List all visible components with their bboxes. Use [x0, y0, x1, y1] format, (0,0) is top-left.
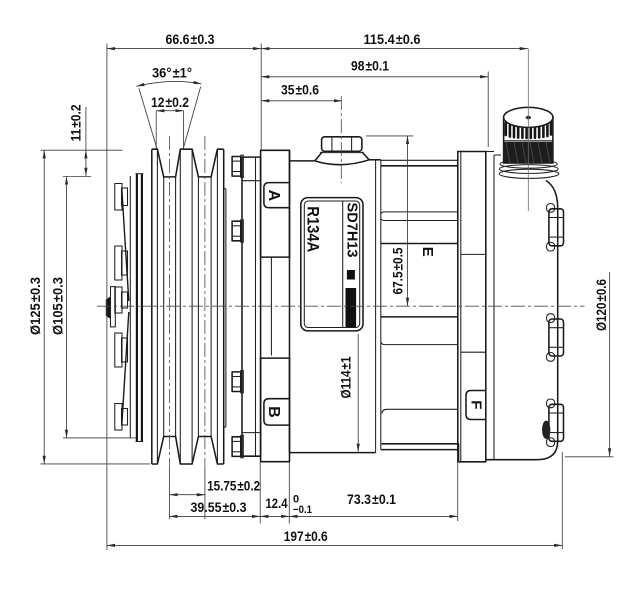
pulley flange outer lines [151, 149, 153, 464]
oil cap knurled dark band [503, 142, 554, 164]
oil filler boss [315, 152, 369, 161]
pulley top rim [152, 149, 224, 177]
svg-text:Ø120 ±0.6: Ø120 ±0.6 [594, 279, 609, 331]
bolt 1 [232, 155, 243, 177]
dimension Ø120±0.6 [609, 272, 611, 456]
clutch retainer center [115, 287, 122, 313]
svg-text:R134A: R134A [304, 206, 322, 252]
mounting lug bottom [542, 399, 564, 446]
groove centerline 1 [168, 136, 170, 468]
dimension 115.4±0.6 [261, 48, 528, 50]
bolt 3 [232, 371, 243, 393]
dimension Ø125±0.3 [43, 150, 45, 464]
rear banded cylinder section [381, 159, 458, 161]
clutch hub nut [106, 297, 111, 319]
svg-text:12.4: 12.4 [266, 496, 288, 511]
svg-text:Ø105 ±0.3: Ø105 ±0.3 [51, 277, 66, 335]
svg-text:A: A [265, 190, 282, 202]
dimension 15.75±0.2 [169, 494, 205, 496]
svg-text:66.6 ±0.3: 66.6 ±0.3 [166, 32, 215, 47]
dimension 39.55±0.3 [169, 515, 260, 517]
svg-text:Ø125 ±0.3: Ø125 ±0.3 [28, 277, 43, 335]
clutch retainer lower-mid [115, 333, 122, 367]
pulley bottom rim [152, 437, 224, 465]
B port block [261, 358, 290, 462]
cap centerline [527, 49, 529, 211]
dimension Ø114±1 [357, 334, 359, 452]
port B tab [264, 399, 290, 425]
dimension 66.6±0.3 [107, 48, 261, 50]
oil cap castellations [506, 123, 551, 138]
svg-text:98 ±0.1: 98 ±0.1 [351, 59, 389, 74]
clutch spider arms [122, 189, 129, 425]
mounting lug middle [547, 314, 564, 361]
port A tab [264, 183, 290, 208]
svg-text:Ø114 ±1: Ø114 ±1 [339, 356, 354, 398]
main axis centerline [97, 305, 585, 307]
cylinder head [458, 152, 486, 462]
svg-text:35 ±0.6: 35 ±0.6 [281, 83, 319, 98]
dimension 73.3±0.1 [289, 515, 457, 517]
mounting lug top [547, 204, 564, 251]
clutch retainer bottom [115, 404, 122, 431]
svg-text:−0.1: −0.1 [293, 504, 312, 516]
dimension 98±0.1 [261, 76, 488, 78]
svg-text:36° ±1°: 36° ±1° [152, 66, 192, 81]
A port block [261, 150, 290, 257]
dimension 36°±1° angular [136, 81, 201, 86]
SANDEN logo bar [346, 288, 357, 327]
clutch hub plate [111, 287, 116, 327]
svg-text:15.75 ±0.2: 15.75 ±0.2 [207, 479, 260, 494]
extension lines [106, 44, 108, 551]
svg-text:115.4 ±0.6: 115.4 ±0.6 [364, 32, 421, 47]
svg-text:SD7H13: SD7H13 [344, 203, 360, 258]
clutch retainer upper-mid [115, 246, 122, 280]
pulley groove root lines [163, 177, 165, 437]
dimension Ø105±0.3 [66, 177, 68, 438]
port F tab [466, 391, 486, 420]
dimension 11±0.2 [85, 107, 87, 150]
label black square [347, 270, 355, 280]
body front section [289, 150, 291, 452]
armature disc [136, 174, 138, 442]
dimension 197±0.6 [107, 544, 562, 546]
label plate SD7H13/R134A [301, 198, 363, 331]
groove centerline 2 [204, 136, 206, 468]
dimension 12±0.2 [156, 110, 183, 112]
oil cap center dot [526, 116, 531, 119]
svg-text:39.55 ±0.3: 39.55 ±0.3 [191, 500, 247, 515]
armature disc front face [129, 176, 131, 438]
bolt 4 [232, 435, 243, 457]
svg-text:11 ±0.2: 11 ±0.2 [68, 105, 83, 142]
svg-text:73.3 ±0.1: 73.3 ±0.1 [347, 492, 396, 507]
svg-text:197 ±0.6: 197 ±0.6 [284, 529, 328, 544]
svg-text:12 ±0.2: 12 ±0.2 [151, 95, 189, 110]
svg-text:B: B [265, 406, 282, 418]
boss centerline [340, 96, 342, 183]
bolt 2 [232, 220, 243, 242]
dimension 67.5±0.5 [407, 136, 409, 306]
clutch retainer top [115, 184, 122, 211]
oil cap top ellipse [504, 107, 553, 127]
svg-text:F: F [467, 400, 484, 409]
svg-text:67.5 ±0.5: 67.5 ±0.5 [391, 247, 406, 294]
dimension 12.4 0/-0.1 [260, 515, 289, 517]
step cylinder between blocks [270, 257, 272, 355]
dimension 35±0.6 [261, 100, 342, 102]
svg-text:E: E [419, 247, 436, 257]
oil cap body [504, 117, 553, 163]
oil cap neck rings [499, 169, 559, 178]
rear housing [486, 151, 494, 153]
filler hex plug [322, 137, 362, 152]
pulley rear hub [225, 189, 227, 427]
front plate [242, 157, 261, 456]
svg-text:SANDEN: SANDEN [346, 290, 355, 326]
